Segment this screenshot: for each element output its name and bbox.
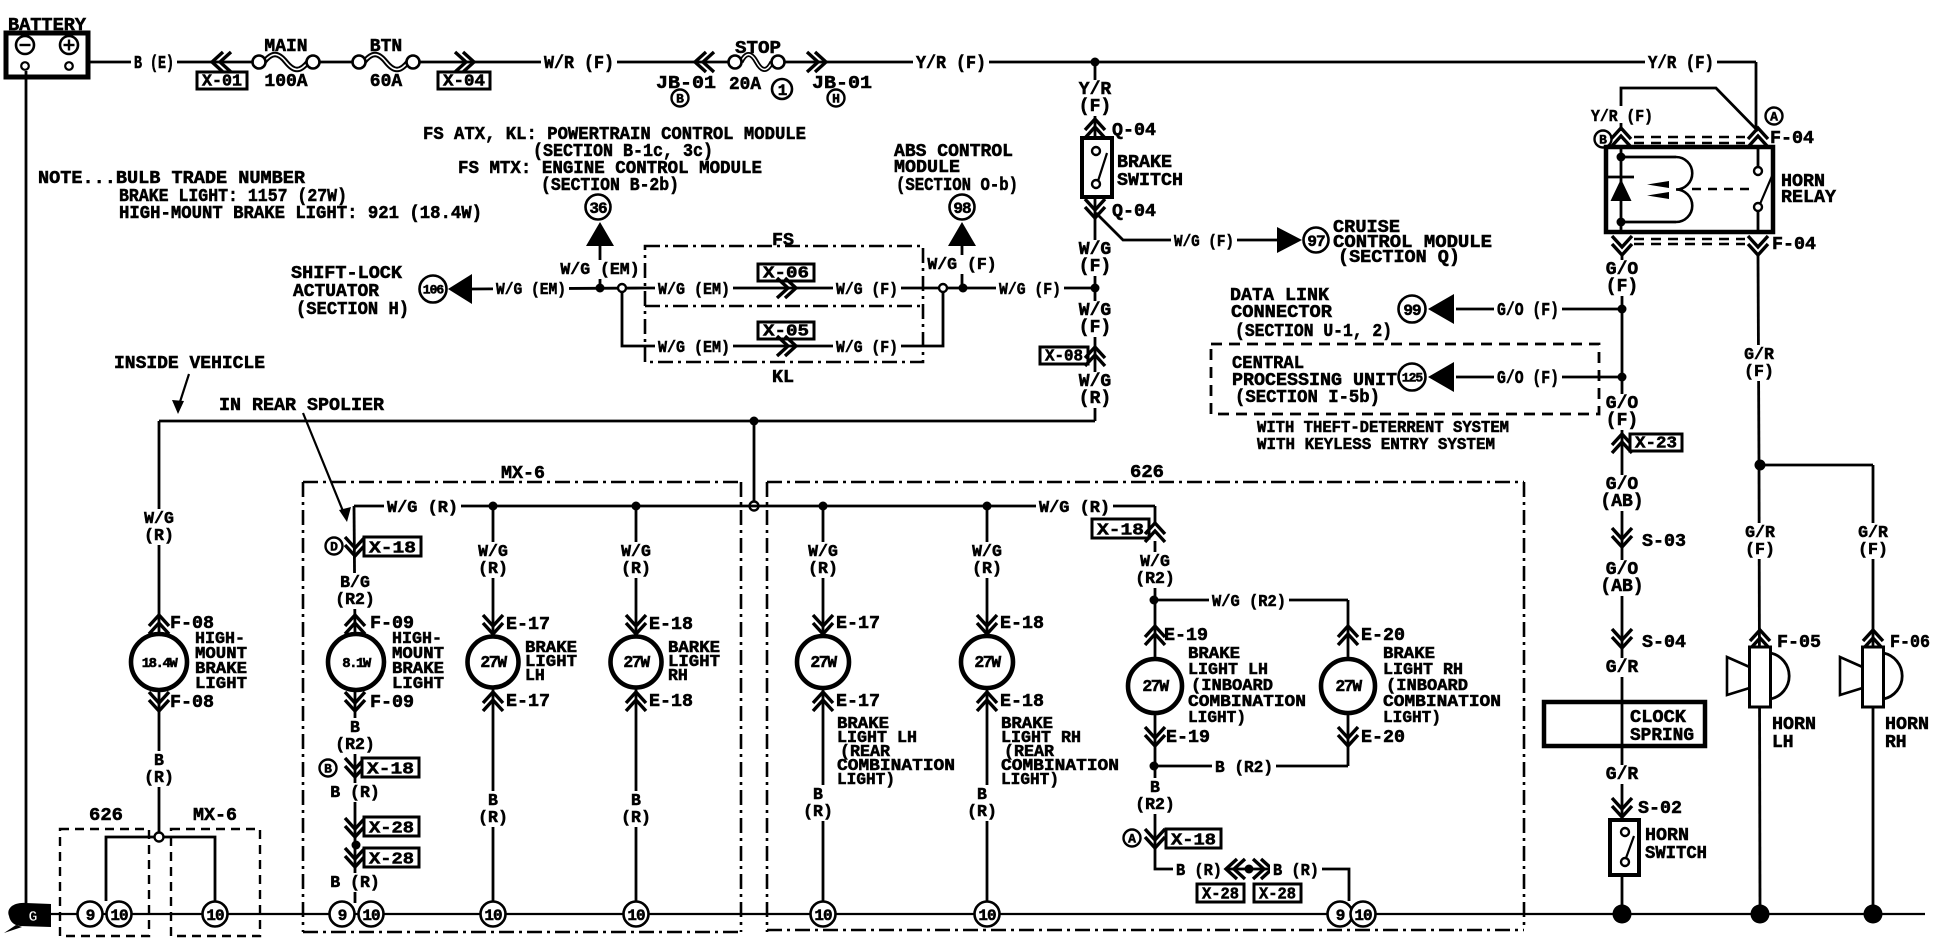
svg-text:626: 626 <box>1130 463 1164 483</box>
connector S-03 <box>1612 528 1686 552</box>
wire drop to 626 bus <box>753 421 756 502</box>
svg-text:(SECTION I-5b): (SECTION I-5b) <box>1235 388 1380 408</box>
svg-text:B: B <box>324 762 332 777</box>
svg-text:10: 10 <box>1354 907 1372 925</box>
svg-text:97: 97 <box>1307 233 1325 251</box>
node FS row2 branch <box>618 284 626 292</box>
svg-text:WITH KEYLESS ENTRY SYSTEM: WITH KEYLESS ENTRY SYSTEM <box>1257 435 1495 454</box>
connector E-20 bottom <box>1338 727 1405 748</box>
bulb 27W 626 brake light RH <box>961 636 1013 688</box>
wire branch to KL row <box>622 292 645 346</box>
wire G/R relay to horn LH <box>1758 255 1760 905</box>
data link connector label <box>1230 286 1392 342</box>
wire col1 to MX-6 ground <box>163 837 215 901</box>
svg-text:G: G <box>28 909 37 926</box>
brake light LH inboard label <box>1188 644 1306 727</box>
svg-text:10: 10 <box>978 907 996 925</box>
connector X-04 <box>438 52 490 91</box>
svg-text:E-20: E-20 <box>1361 728 1405 748</box>
cruise control module label <box>1333 218 1492 268</box>
wire label Y/R (F) right <box>1645 53 1717 74</box>
node W/G junction <box>1091 284 1100 293</box>
bulb 27W inboard brake light LH <box>1128 659 1182 713</box>
svg-text:27W: 27W <box>623 653 650 672</box>
svg-text:BTN: BTN <box>370 37 402 57</box>
arrow 97 to cruise control <box>1277 227 1329 253</box>
svg-text:27W: 27W <box>810 653 837 672</box>
connector Q-04 top <box>1085 119 1156 141</box>
svg-text:LIGHT): LIGHT) <box>1383 708 1441 727</box>
svg-text:B (R): B (R) <box>330 783 380 802</box>
wire to data link connector <box>1456 308 1622 311</box>
wire col8 inboard RH <box>1347 600 1350 766</box>
node bus crossing <box>750 502 759 511</box>
connector X-28 pair <box>1197 859 1301 904</box>
svg-text:G/O (F): G/O (F) <box>1497 369 1559 389</box>
connector E-18 626 bottom <box>977 692 1044 712</box>
horn relay internal wire left <box>1620 147 1623 232</box>
diode inside horn relay <box>1608 177 1634 201</box>
node col7 return <box>1150 762 1159 771</box>
svg-text:X-18: X-18 <box>369 539 416 558</box>
wire label G/R <box>1603 658 1640 678</box>
svg-text:ACTUATOR: ACTUATOR <box>293 282 379 302</box>
svg-text:(R): (R) <box>621 808 651 827</box>
wire label G/O (F) <box>1603 260 1640 297</box>
node col1 split <box>155 833 164 842</box>
wire label W/G (EM) row2 <box>655 337 733 357</box>
svg-text:(R2): (R2) <box>335 735 375 754</box>
svg-text:10: 10 <box>206 907 224 925</box>
MX-6 label <box>501 464 545 484</box>
wire branch to cruise control <box>1096 213 1277 240</box>
wire KL row X-05 <box>645 345 923 348</box>
wire col1 to 626 ground <box>106 837 155 901</box>
svg-text:A: A <box>1770 110 1778 125</box>
wire G/O relay to horn switch <box>1621 255 1624 905</box>
wire col6 brake light RH 626 <box>986 506 989 903</box>
wire label W/G (R) col4 <box>619 542 654 578</box>
node bus col6 <box>983 502 992 511</box>
wire label W/G (R2) <box>1209 591 1289 611</box>
wire label W/G (R) col1 <box>142 509 177 545</box>
ground terminal 9 col2 <box>330 902 355 927</box>
wire col7 ground link <box>1155 850 1349 901</box>
connector X-08 <box>1040 347 1105 367</box>
svg-text:(SECTION H): (SECTION H) <box>296 300 409 320</box>
svg-text:X-28: X-28 <box>1202 885 1239 904</box>
svg-text:CLOCK: CLOCK <box>1630 708 1686 728</box>
connector X-01 <box>197 52 247 91</box>
inside vehicle label <box>114 354 265 374</box>
wire col7 inboard LH <box>1154 506 1157 850</box>
svg-text:1: 1 <box>778 82 787 100</box>
svg-text:X-01: X-01 <box>202 72 242 91</box>
svg-text:(R): (R) <box>808 559 838 578</box>
svg-text:X-28: X-28 <box>369 850 414 869</box>
wire rear harness W/G (R) <box>159 420 1095 423</box>
svg-text:LIGHT: LIGHT <box>195 674 247 693</box>
svg-text:(R): (R) <box>621 559 651 578</box>
wire W/G (R2) branch to col8 <box>1154 599 1348 602</box>
junction JB-01 B <box>656 52 716 107</box>
arrow 106 to shift-lock <box>420 274 473 304</box>
626 label <box>1130 463 1164 483</box>
wire col1 high-mount <box>158 421 161 833</box>
svg-text:(R): (R) <box>478 559 508 578</box>
ground terminal 10 col7 <box>1351 902 1376 927</box>
svg-text:SHIFT-LOCK: SHIFT-LOCK <box>291 264 402 284</box>
svg-text:HORN: HORN <box>1772 715 1816 735</box>
wire label W/G (R) col3 <box>476 542 511 578</box>
svg-text:MODULE: MODULE <box>894 158 960 178</box>
svg-text:(F): (F) <box>1606 411 1638 431</box>
svg-text:9: 9 <box>1336 907 1345 925</box>
wire battery negative to ground <box>25 71 28 903</box>
node 36 tap <box>596 284 605 293</box>
connector F-08 top <box>149 614 214 634</box>
svg-text:60A: 60A <box>370 72 403 92</box>
svg-text:626: 626 <box>89 806 123 826</box>
svg-text:LIGHT: LIGHT <box>392 674 444 693</box>
svg-text:(F): (F) <box>1079 97 1111 117</box>
wire label G/O (AB) <box>1598 475 1647 512</box>
arrow 98 to ABS <box>948 195 976 247</box>
wire label B (E) <box>131 53 177 74</box>
svg-text:(R): (R) <box>972 559 1002 578</box>
MX-6 ground box <box>171 806 260 936</box>
in rear spoiler arrow <box>303 413 351 522</box>
svg-text:W/G (R): W/G (R) <box>1039 498 1110 517</box>
svg-text:(F): (F) <box>1745 540 1775 559</box>
svg-text:27W: 27W <box>1335 677 1362 696</box>
svg-text:18.4W: 18.4W <box>142 656 179 672</box>
connector F-06 <box>1863 630 1930 653</box>
svg-text:B (R): B (R) <box>1176 861 1222 880</box>
svg-text:STOP: STOP <box>735 39 781 59</box>
wire label Y/R (F) at relay <box>1589 106 1655 126</box>
connector X-18 D <box>326 537 422 558</box>
svg-text:W/G (F): W/G (F) <box>1174 232 1234 251</box>
junction JB-01 H <box>807 52 872 107</box>
svg-text:100A: 100A <box>264 72 307 92</box>
svg-text:(R2): (R2) <box>1135 569 1175 588</box>
central processing unit arrow 125 <box>1399 362 1455 392</box>
svg-text:G/O (F): G/O (F) <box>1497 301 1559 321</box>
wire to central processing unit <box>1456 376 1622 379</box>
wire label Y/R (F) <box>913 53 989 74</box>
ground symbol G <box>4 903 51 933</box>
wire label B (R) right <box>1270 860 1322 880</box>
svg-text:(SECTION U-1, 2): (SECTION U-1, 2) <box>1235 322 1392 342</box>
horn RH label <box>1885 715 1929 753</box>
node bus col5 <box>819 502 828 511</box>
svg-text:W/G (F): W/G (F) <box>927 255 996 274</box>
svg-text:MX-6: MX-6 <box>193 806 237 826</box>
svg-text:E-18: E-18 <box>1000 692 1044 712</box>
svg-text:X-28: X-28 <box>369 819 414 838</box>
junction node brake-switch tap <box>1091 58 1100 67</box>
svg-text:E-18: E-18 <box>1000 614 1044 634</box>
wire label G/O (F) to CPU <box>1494 368 1562 389</box>
svg-text:RELAY: RELAY <box>1781 188 1836 208</box>
wire col3 brake light LH <box>492 506 495 903</box>
wire label B (R) col2 low <box>327 873 382 892</box>
svg-text:S-03: S-03 <box>1642 532 1686 552</box>
connector F-05 <box>1750 630 1821 653</box>
svg-text:LH: LH <box>525 666 545 685</box>
ground terminal 10 626 <box>107 902 132 927</box>
svg-text:27W: 27W <box>1142 677 1169 696</box>
wire label W/G (R) bus left <box>384 497 461 517</box>
wire label W/G (F) row1 <box>833 279 901 299</box>
connector F-09 top <box>345 614 414 634</box>
wire label B (R) col1 <box>142 751 177 787</box>
svg-text:RH: RH <box>668 666 688 685</box>
svg-text:H: H <box>832 92 840 107</box>
svg-text:10: 10 <box>484 907 502 925</box>
connector E-18 mid <box>626 692 693 712</box>
svg-text:W/G (R): W/G (R) <box>387 498 458 517</box>
arrow 36 to PCM <box>586 195 615 247</box>
ground terminal 9 626 <box>78 902 103 927</box>
node bus col4 <box>632 502 641 511</box>
connector E-18 top <box>626 615 693 635</box>
wire col2 high-mount MX-6 <box>354 506 355 903</box>
in rear spoiler label <box>219 396 384 416</box>
svg-text:HORN: HORN <box>1645 826 1689 846</box>
brake light LH rear combination label <box>837 714 955 789</box>
svg-text:(F): (F) <box>1079 257 1111 277</box>
svg-text:F-09: F-09 <box>370 693 414 713</box>
brake switch <box>1082 138 1183 197</box>
ground rail wire <box>51 913 1925 915</box>
wire relay switch to pin F-04 <box>1757 211 1760 232</box>
svg-text:(R): (R) <box>144 768 174 787</box>
svg-text:B: B <box>676 92 684 107</box>
svg-text:LIGHT): LIGHT) <box>837 770 895 789</box>
note bulb trade number <box>38 169 482 224</box>
FS label <box>772 231 794 251</box>
connector E-19 bottom <box>1145 727 1210 748</box>
connector X-28 lower <box>345 848 419 869</box>
svg-text:(SECTION O-b): (SECTION O-b) <box>896 176 1018 196</box>
connector E-17 top <box>483 615 550 635</box>
high-mount brake light label <box>195 629 247 693</box>
connector F-04 bottom <box>1612 235 1816 255</box>
brake light RH label <box>668 638 720 685</box>
svg-text:(F): (F) <box>1606 277 1638 297</box>
theft-deterrent note <box>1257 418 1509 454</box>
wire label W/G (F) cruise <box>1171 231 1237 251</box>
svg-text:10: 10 <box>362 907 380 925</box>
svg-text:S-02: S-02 <box>1638 799 1682 819</box>
svg-text:E-17: E-17 <box>506 615 550 635</box>
svg-text:98: 98 <box>953 200 971 218</box>
bulb 27W 626 brake light LH <box>797 636 849 688</box>
svg-text:27W: 27W <box>480 653 507 672</box>
wire brake switch output <box>1094 197 1097 421</box>
relay switch contacts <box>1754 167 1772 211</box>
connector S-02 <box>1612 798 1682 819</box>
svg-text:E-19: E-19 <box>1166 728 1210 748</box>
node relay coil bottom <box>1617 218 1626 227</box>
wire label W/G (R) col5 <box>806 542 841 578</box>
svg-text:LIGHT): LIGHT) <box>1001 770 1059 789</box>
ground terminal 10 col6 <box>975 902 1000 927</box>
data link connector arrow 99 <box>1399 294 1455 324</box>
connector X-18 626 <box>1092 519 1165 542</box>
wire label W/G (R) col6 <box>970 542 1005 578</box>
connector E-18 626 top <box>977 614 1044 634</box>
connector X-06 <box>758 264 814 299</box>
connector X-05 <box>758 322 814 357</box>
wire label W/G (F) 2 <box>1076 301 1113 338</box>
node KL return <box>939 284 947 292</box>
svg-text:X-04: X-04 <box>443 72 485 91</box>
ground terminal 10 MX-6 <box>203 902 228 927</box>
shift-lock actuator label <box>291 264 409 320</box>
svg-text:10: 10 <box>814 907 832 925</box>
svg-text:(R): (R) <box>478 808 508 827</box>
svg-text:X-23: X-23 <box>1635 434 1677 453</box>
bulb 27W inboard brake light RH <box>1321 659 1375 713</box>
relay coil <box>1621 157 1692 222</box>
horn relay box <box>1606 147 1773 232</box>
svg-text:B (R): B (R) <box>330 873 380 892</box>
svg-text:HORN: HORN <box>1885 715 1929 735</box>
fuse MAIN 100A <box>253 37 320 92</box>
svg-text:A: A <box>1128 832 1136 847</box>
svg-text:D: D <box>330 540 338 555</box>
wire label W/G (R) bus right <box>1036 497 1113 517</box>
svg-text:8.1W: 8.1W <box>342 656 372 672</box>
svg-text:CONNECTOR: CONNECTOR <box>1231 303 1332 323</box>
svg-text:NOTE...BULB TRADE NUMBER: NOTE...BULB TRADE NUMBER <box>38 169 305 189</box>
svg-text:RH: RH <box>1885 733 1907 753</box>
horn LH symbol <box>1727 647 1789 707</box>
wire label G/O (AB) 2 <box>1598 560 1647 597</box>
svg-text:W/G (EM): W/G (EM) <box>560 260 639 279</box>
high-mount brake light label MX-6 <box>392 629 444 693</box>
central processing unit box <box>1211 344 1599 414</box>
svg-text:X-18: X-18 <box>1171 831 1216 850</box>
wire label B (R2) <box>1212 757 1276 777</box>
ground terminal 10 col5 <box>811 902 836 927</box>
svg-text:(R): (R) <box>967 802 997 821</box>
ground terminal 10 col3 <box>481 902 506 927</box>
svg-text:(AB): (AB) <box>1600 492 1643 512</box>
svg-text:W/G (F): W/G (F) <box>836 338 898 357</box>
KL label <box>772 368 794 388</box>
central processing unit label <box>1232 354 1397 408</box>
node bus col3 <box>489 502 498 511</box>
wire label W/R (F) <box>541 53 617 74</box>
wire label G/R (F) horn RH <box>1856 523 1891 559</box>
node ground horn RH <box>1864 905 1883 924</box>
wire col5 brake light LH 626 <box>822 506 825 903</box>
svg-text:W/G (EM): W/G (EM) <box>658 338 730 357</box>
svg-text:(F): (F) <box>1858 540 1888 559</box>
connector F-09 bottom <box>345 692 414 713</box>
svg-text:Q-04: Q-04 <box>1112 121 1156 141</box>
bulb 27W brake light RH <box>611 637 662 688</box>
wire W/G (R) bus <box>354 505 1155 508</box>
svg-text:B (R): B (R) <box>1273 861 1319 880</box>
svg-text:IN REAR SPOLIER: IN REAR SPOLIER <box>219 396 384 416</box>
svg-text:G/R: G/R <box>1606 765 1639 785</box>
MX-6 harness box <box>303 482 741 932</box>
svg-text:(F): (F) <box>1079 318 1111 338</box>
svg-text:SWITCH: SWITCH <box>1645 844 1707 864</box>
wire label G/R (F) horn LH <box>1743 523 1778 559</box>
inside vehicle arrow <box>172 374 189 414</box>
wire ABS arrow to node <box>961 246 964 288</box>
node CPU tap <box>1618 373 1627 382</box>
svg-text:Q-04: Q-04 <box>1112 202 1156 222</box>
svg-text:W/G (EM): W/G (EM) <box>658 280 730 299</box>
connector X-28 upper <box>345 817 419 838</box>
wire label W/G (EM) <box>493 279 569 299</box>
wire label W/G (F) row2 <box>833 337 901 357</box>
svg-text:(AB): (AB) <box>1600 577 1643 597</box>
svg-text:W/G (EM): W/G (EM) <box>496 280 566 299</box>
wire relay pin A to switch <box>1757 147 1760 167</box>
node relay coil top <box>1617 153 1626 162</box>
wire Y/R to brake switch <box>1094 62 1097 138</box>
svg-text:B (E): B (E) <box>134 54 174 74</box>
node rear spoiler tap <box>750 417 759 426</box>
svg-text:SPRING: SPRING <box>1630 726 1694 746</box>
svg-text:KL: KL <box>772 368 794 388</box>
svg-text:(R2): (R2) <box>335 590 375 609</box>
svg-text:(R2): (R2) <box>1135 795 1175 814</box>
svg-text:27W: 27W <box>974 653 1001 672</box>
wire label G/O (F) to DLC <box>1494 300 1562 321</box>
connector E-20 top <box>1338 626 1405 646</box>
wire label W/G (EM) at 36 <box>557 260 643 279</box>
wire label Y/R (F) above switch <box>1076 80 1113 117</box>
svg-text:E-17: E-17 <box>836 614 880 634</box>
connector F-04 top <box>1595 108 1815 150</box>
svg-text:E-20: E-20 <box>1361 626 1405 646</box>
svg-text:LIGHT): LIGHT) <box>1188 708 1246 727</box>
svg-text:E-17: E-17 <box>836 692 880 712</box>
connector E-17 mid <box>483 692 550 712</box>
svg-text:(F): (F) <box>1744 362 1774 381</box>
connector S-04 <box>1612 629 1686 653</box>
svg-text:LH: LH <box>1772 733 1794 753</box>
svg-text:Y/R (F): Y/R (F) <box>1591 107 1653 126</box>
wire label B (R2) col2 <box>333 718 378 754</box>
svg-text:Y/R (F): Y/R (F) <box>1648 54 1714 74</box>
brake light LH label <box>525 638 577 685</box>
wire label B (R2) col7 <box>1133 778 1178 814</box>
wire label B (R) col6 <box>965 785 1000 821</box>
svg-text:99: 99 <box>1403 302 1421 320</box>
wire shift-lock to FS box <box>472 288 645 289</box>
svg-text:SWITCH: SWITCH <box>1117 171 1183 191</box>
battery label <box>8 16 86 36</box>
svg-text:106: 106 <box>423 283 445 298</box>
wire label G/R (F) below relay <box>1742 345 1777 381</box>
connector E-17 626 bottom <box>813 692 880 712</box>
wire label W/G (R) <box>1076 372 1113 409</box>
connector X-18 A <box>1124 829 1222 850</box>
fuse STOP 20A <box>729 39 793 100</box>
svg-text:INSIDE VEHICLE: INSIDE VEHICLE <box>114 354 265 374</box>
svg-text:X-08: X-08 <box>1045 347 1083 366</box>
